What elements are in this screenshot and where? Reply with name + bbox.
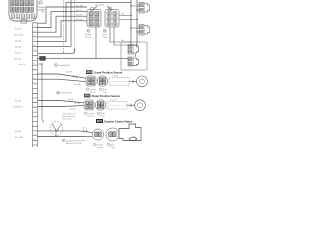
injector 3 (under valve cover, in detail box) (121, 42, 147, 70)
svg-text:Socket: Socket (85, 36, 92, 39)
wire to detail box (38, 58, 129, 60)
svg-text:3xx Bk: 3xx Bk (66, 72, 72, 74)
svg-text:Pump Position Sensor: Pump Position Sensor (92, 94, 121, 98)
svg-text:93 le Wh: 93 le Wh (15, 137, 23, 139)
note: shield on remote mount (62, 139, 83, 145)
SCV wires (38, 131, 93, 133)
pin wire labels (left of ladder) (13, 29, 25, 140)
terminal strip (ECU pin ladder) (33, 23, 38, 147)
svg-text:Injector: Injector (96, 1, 103, 4)
svg-text:Suction Control Valve: Suction Control Valve (104, 120, 132, 124)
svg-text:3xx Wh: 3xx Wh (74, 84, 81, 86)
svg-text:P6: P6 (33, 49, 35, 51)
svg-text:940 Gy: 940 Gy (15, 29, 21, 31)
block A label (circled F, Female Socket) (85, 29, 93, 38)
connector J1 pin row 1 (11, 1, 34, 6)
wires block B to injector bus (96, 27, 137, 59)
wire fan: riser 5 (38, 3, 132, 42)
MAG crank sensor header (86, 70, 122, 74)
svg-text:17: 17 (33, 101, 35, 103)
crank sensor cable (dashed) (109, 78, 129, 86)
svg-text:A5: A5 (33, 43, 35, 46)
connector J1 pin row 2 (11, 7, 34, 12)
svg-text:1xx Gn: 1xx Gn (110, 99, 116, 101)
svg-text:Connector: Connector (95, 3, 105, 6)
svg-text:962 Tn: 962 Tn (76, 10, 82, 12)
svg-text:Mount GCG Only: Mount GCG Only (66, 142, 81, 145)
svg-text:M: M (104, 31, 106, 33)
svg-text:963 Pu: 963 Pu (76, 15, 82, 17)
svg-text:96x: 96x (121, 40, 124, 42)
pump sensor connector pair (84, 100, 106, 110)
injector bus line 2 (136, 0, 138, 45)
crank sensor connector pair (86, 76, 108, 86)
svg-text:GCG Only: GCG Only (62, 119, 71, 121)
injector connector label (94, 1, 112, 10)
wire into bundle (38, 51, 75, 53)
svg-text:930 Bk: 930 Bk (15, 101, 21, 103)
twisted pair label 1 (55, 64, 70, 67)
svg-text:24: 24 (33, 134, 35, 136)
bus stubs to injectors (131, 6, 139, 32)
svg-text:Crank Position Sensor: Crank Position Sensor (94, 71, 123, 75)
svg-text:3xx Bu: 3xx Bu (70, 109, 76, 111)
pump sensor labels (84, 112, 106, 117)
svg-text:948 Lg: 948 Lg (15, 41, 21, 43)
connector J1 (ECU header, top-left, top cut off) (9, 0, 37, 23)
shield splice (dashed circle with Y) (50, 121, 63, 136)
svg-text:Socket: Socket (97, 146, 104, 149)
wire fan: riser 1 (38, 7, 88, 23)
svg-text:Twisted Pair: Twisted Pair (61, 92, 73, 95)
svg-text:964 Gy: 964 Gy (76, 19, 82, 21)
svg-text:3xx Gn: 3xx Gn (68, 99, 74, 101)
crank twisted pair wires (38, 74, 87, 78)
pump twisted pair wires (38, 101, 85, 103)
wire fan: riser 4 (38, 21, 88, 37)
svg-text:945 Pu: 945 Pu (15, 53, 21, 55)
injector 2 (139, 25, 150, 36)
SCV labels (93, 143, 116, 148)
block B label (circled M, Male Plug) (103, 29, 108, 38)
svg-text:Socket: Socket (88, 114, 95, 117)
svg-text:P2: P2 (33, 30, 35, 32)
svg-text:MAG: MAG (85, 94, 91, 98)
SCV connector pair (92, 128, 119, 141)
svg-text:2xx Pk: 2xx Pk (19, 64, 25, 66)
SCV header (96, 119, 133, 124)
harness pass-through dashed line 1 (64, 0, 66, 52)
wire fan: riser 2 (38, 12, 88, 28)
svg-text:SCV: SCV (97, 119, 103, 123)
svg-text:Plug: Plug (111, 147, 115, 149)
svg-text:Plug: Plug (103, 91, 107, 93)
svg-text:940 Or-Bk: 940 Or-Bk (14, 35, 23, 37)
bundle end ticks (63, 52, 75, 53)
injector bus line 1 (130, 0, 132, 42)
SCV valve body (119, 124, 141, 141)
svg-text:Plug: Plug (103, 37, 107, 39)
svg-text:96x: 96x (121, 14, 124, 16)
svg-text:944 Bk: 944 Bk (15, 47, 21, 49)
pump sensor cable (dashed) (107, 101, 127, 109)
MAG pump sensor header (84, 94, 120, 98)
wire labels above fan (41, 5, 83, 21)
shield wire (38, 64, 45, 123)
svg-text:961 Wh: 961 Wh (76, 5, 83, 7)
svg-text:B3: B3 (33, 35, 35, 37)
connector J1 pin row 3 (12, 14, 35, 19)
svg-text:C1: C1 (33, 26, 35, 28)
injector connector block B (male) (105, 8, 119, 27)
svg-text:934CM Gn: 934CM Gn (13, 107, 23, 109)
svg-text:18: 18 (33, 106, 35, 108)
crank sensor labels (86, 88, 108, 93)
svg-text:936 Bk: 936 Bk (15, 131, 21, 133)
J1 label (circled symbol + Female Header) (38, 1, 46, 12)
wire fan: riser 3 (38, 16, 88, 32)
svg-text:Socket: Socket (90, 90, 97, 93)
svg-text:25: 25 (33, 139, 35, 141)
svg-text:Wh: Wh (41, 12, 44, 14)
injector connector block A (female) (87, 8, 101, 27)
svg-text:11: 11 (33, 77, 35, 79)
twisted pair label 2 (57, 91, 72, 94)
pump sensor body (127, 104, 135, 107)
svg-text:945L Bu: 945L Bu (14, 59, 21, 61)
injector 1 (139, 3, 150, 14)
crank sensor body (129, 80, 137, 83)
splice label 961 (40, 56, 46, 60)
ladder pin numbers (33, 26, 35, 141)
svg-text:P9: P9 (33, 63, 35, 65)
wires block B right edge to bus (119, 16, 137, 20)
note: twisted pair on remote mount (62, 113, 76, 121)
svg-text:MAG: MAG (87, 70, 93, 74)
wire fan: riser 6 (38, 0, 72, 46)
harness pass-through dashed line 2 (73, 0, 75, 52)
svg-text:Plug: Plug (101, 115, 105, 117)
svg-text:P4: P4 (33, 40, 35, 42)
svg-text:12: 12 (33, 82, 35, 84)
svg-text:1xx Bk: 1xx Bk (112, 76, 118, 78)
svg-text:Twisted Pair: Twisted Pair (59, 64, 71, 67)
